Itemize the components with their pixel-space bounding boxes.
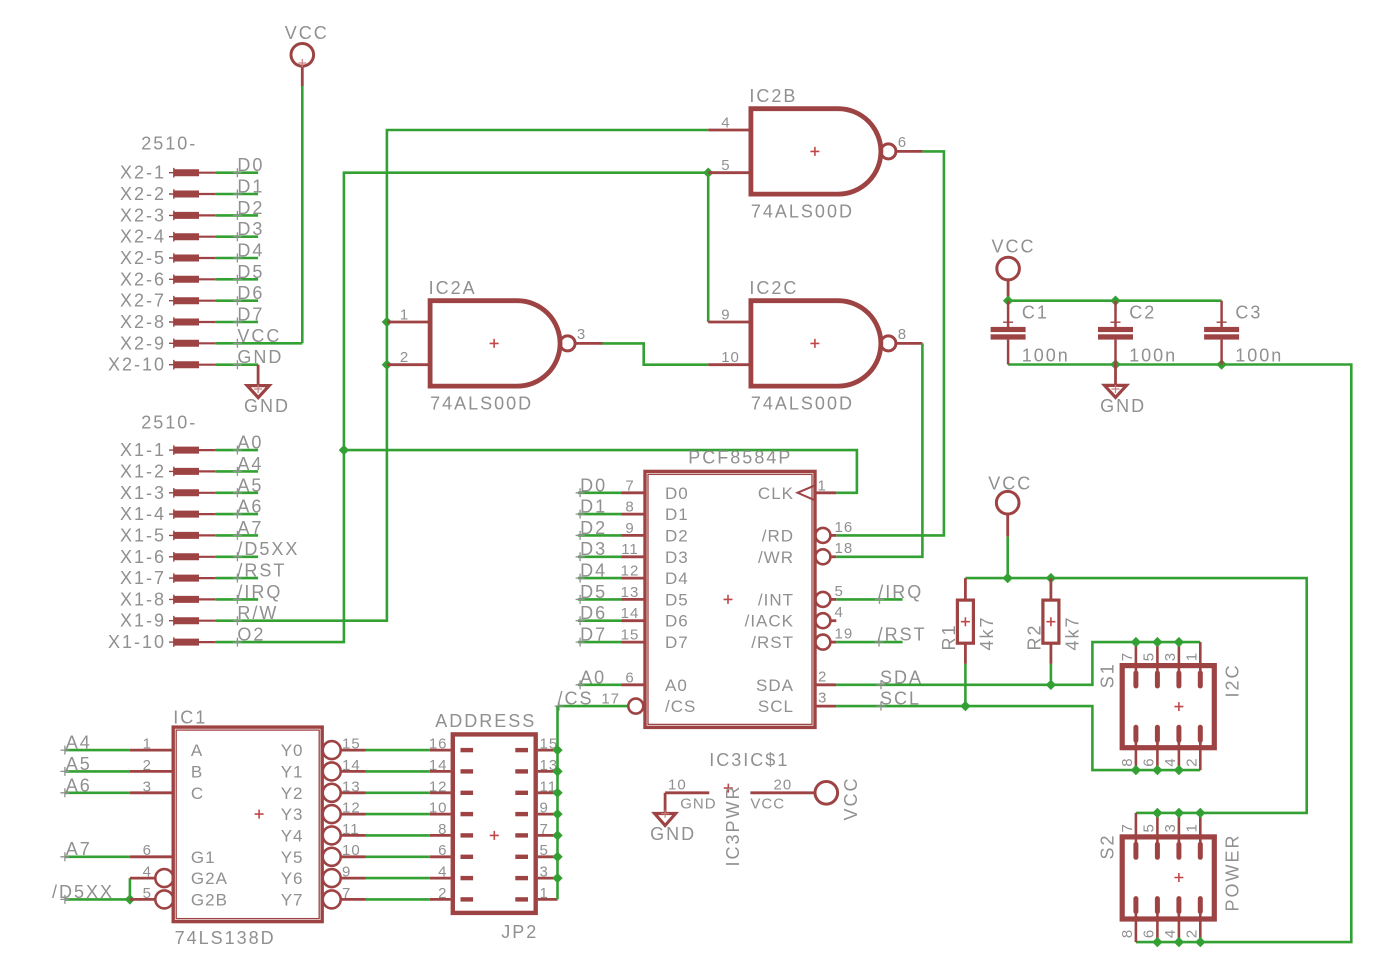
svg-text:5: 5 [721,157,730,174]
connector pin X1-10 [169,637,179,647]
svg-text:6: 6 [625,669,634,686]
pin 13 of JP2 [538,770,558,773]
connector S1 (I2C) [1122,666,1214,748]
connector pin X1-9 [169,616,179,626]
svg-text:D7: D7 [580,625,607,645]
pin 2 (B) of IC1 [130,770,173,773]
node label D6 [233,296,242,305]
wire net /CS from JP2 to PCF8584P pin 17 [558,705,629,708]
wire net from IC2C pin 8 to PCF8584P /WR [836,343,922,556]
svg-text:4: 4 [1162,757,1179,766]
pin 6 of IC2B [896,150,923,153]
svg-text:VCC: VCC [992,237,1036,257]
svg-text:JP2: JP2 [501,922,538,942]
pin 2 of S1 [1199,739,1202,770]
svg-text:G2B: G2B [191,890,228,909]
pin 3 of JP2 [538,877,558,880]
wire net Y7 from IC1 to JP2 [366,898,430,901]
svg-text:2: 2 [143,757,152,774]
svg-text:D2: D2 [665,526,689,545]
pin 5 of S2 [1156,813,1159,845]
node label A0 [233,446,242,455]
wire net O2 from IC2B pin 5 down to IC2C pin 9 [707,173,710,322]
node label D4 [233,254,242,263]
pin 7 (D0) of PCF8584P [622,491,646,494]
pin 4 (/IACK) of PCF8584P [815,613,830,628]
svg-text:6: 6 [898,134,907,151]
pin 9 (Y6) of IC1 [323,869,341,887]
pin 19 (/RST) of PCF8584P [815,635,830,650]
svg-text:15: 15 [621,627,640,644]
svg-text:4: 4 [1162,929,1179,938]
wire net SCL from R1 bottom [964,664,967,706]
wire net Y1 from IC1 to JP2 [366,770,430,773]
pin 7 of JP2 [538,834,558,837]
svg-text:X1-8: X1-8 [120,589,166,609]
junction GND at C3 [1216,359,1226,369]
svg-text:Y3: Y3 [281,805,304,824]
pin 11 (D3) of PCF8584P [622,555,646,558]
svg-text:D1: D1 [237,177,264,197]
svg-text:5: 5 [540,842,549,859]
svg-text:13: 13 [342,778,361,795]
svg-text:5: 5 [143,885,152,902]
svg-text:10: 10 [429,800,448,817]
svg-text:2: 2 [438,885,447,902]
svg-text:6: 6 [1141,757,1158,766]
wire net D3 at X2-4 [215,235,258,238]
wire net A7 to IC1 pin 6 [65,855,130,858]
svg-text:16: 16 [835,519,854,536]
node label O2 [233,638,242,647]
pin 4 of JP2 [430,877,451,880]
svg-text:D5: D5 [580,582,607,602]
svg-text:VCC: VCC [237,326,281,346]
junction at S1 top pin [1152,637,1162,647]
wire net Y6 from IC1 to JP2 [366,877,430,880]
junction at S2 bottom pin [1174,937,1184,947]
resistor R2 4k7 [1050,578,1053,600]
svg-text:GND: GND [650,824,696,844]
svg-text:/RST: /RST [878,625,927,645]
connector pin X2-9 [169,339,179,349]
svg-text:6: 6 [143,842,152,859]
svg-text:VCC: VCC [750,795,785,812]
wire net /D5XX at X1-6 [215,555,258,558]
node label A4 [233,467,242,476]
pin 2 (SDA) of PCF8584P [815,683,836,686]
wire net D2 to PCF8584P pin 9 [578,534,622,537]
svg-text:Y0: Y0 [281,741,304,760]
capacitor C3 100n [1220,301,1223,327]
svg-text:X1-3: X1-3 [120,483,166,503]
capacitor C2 100n [1114,301,1117,327]
svg-text:D6: D6 [237,283,264,303]
junction R/W at IC2A pin 1 [382,317,392,327]
pin 3 of S1 [1178,642,1181,674]
svg-text:D5: D5 [237,262,264,282]
svg-text:14: 14 [429,757,448,774]
pin 5 (/INT) of PCF8584P [815,592,830,607]
wire net D2 at X2-3 [215,214,258,217]
svg-text:/D5XX: /D5XX [52,882,114,902]
svg-text:X2-4: X2-4 [120,227,166,247]
wire net SCL from PCF8584P pin 3 to R1 and S1 bottom pins [836,706,1200,770]
pin 5 of JP2 [538,855,558,858]
connector pin X2-1 [169,168,179,178]
wire net Y5 from IC1 to JP2 [366,855,430,858]
svg-text:IC2A: IC2A [429,278,477,298]
svg-text:X2-3: X2-3 [120,205,166,225]
svg-text:8: 8 [1119,929,1136,938]
ground symbol under C2 [1114,365,1117,386]
pin 4 of S1 [1178,739,1181,770]
pin 1 of JP2 [538,898,558,901]
pin 12 (D4) of PCF8584P [622,577,646,580]
wire net A0 at X1-1 [215,449,258,452]
svg-text:D4: D4 [665,569,689,588]
pin 1 of IC2A [387,321,430,324]
connector pin X1-8 [169,595,179,605]
pin 4 of S2 [1178,911,1181,943]
svg-text:4: 4 [438,864,447,881]
wire net D1 at X2-2 [215,193,258,196]
junction O2 at IC2B pin 5 [703,168,713,178]
svg-text:D0: D0 [580,475,607,495]
svg-text:9: 9 [625,520,634,537]
svg-text:GND: GND [1100,396,1146,416]
svg-text:SCL: SCL [758,697,794,716]
svg-text:D2: D2 [237,198,264,218]
svg-text:IC2C: IC2C [749,278,798,298]
pin 8 of S2 [1135,911,1138,943]
svg-text:X2-2: X2-2 [120,184,166,204]
wire net A6 at X1-4 [215,513,258,516]
pin 2 of JP2 [430,898,451,901]
svg-text:D2: D2 [580,518,607,538]
connector pin X1-5 [169,531,179,541]
connector pin X2-3 [169,211,179,221]
svg-text:4k7: 4k7 [977,615,997,650]
wire net D3 to PCF8584P pin 11 [578,555,622,558]
pin 11 (Y4) of IC1 [323,826,341,844]
connector pin X1-7 [169,573,179,583]
node label /IRQ [875,595,884,604]
connector S2 (POWER) [1122,837,1214,919]
pin 1 (CLK) of PCF8584P [815,491,836,494]
node label /RST [875,638,884,647]
wire net /D5XX to IC1 G2A/G2B [65,898,130,901]
ground symbol at IC3 pin 10 [664,793,667,814]
svg-text:1: 1 [540,885,549,902]
svg-text:3: 3 [1162,823,1179,832]
junction at S1 top pin [1174,637,1184,647]
node label /RST [233,574,242,583]
wire net /RST from PCF8584P pin 19 [836,641,902,644]
svg-text:D3: D3 [237,219,264,239]
wire net A4 to IC1 pin 1 [65,749,130,752]
svg-text:8: 8 [898,326,907,343]
node label /D5XX [233,552,242,561]
junction /CS at JP2 pin 13 [552,766,562,776]
junction R/W at IC2A pin 2 [382,360,392,370]
svg-text:G1: G1 [191,848,216,867]
svg-text:D7: D7 [665,633,689,652]
pin 11 of JP2 [538,791,558,794]
svg-text:X1-9: X1-9 [120,611,166,631]
svg-text:X2-6: X2-6 [120,269,166,289]
svg-text:Y2: Y2 [281,784,304,803]
svg-text:100n: 100n [1022,346,1070,366]
svg-text:A0: A0 [237,433,263,453]
capacitor C1 100n [1007,301,1010,327]
svg-text:3: 3 [143,778,152,795]
node label GND [233,360,242,369]
node label SCL [877,702,886,711]
pin 12 (Y3) of IC1 [323,805,341,823]
svg-text:SDA: SDA [880,667,923,687]
svg-text:A5: A5 [237,475,263,495]
pin 9 (D2) of PCF8584P [622,534,646,537]
wire net /CS vertical joining JP2 right pins [556,706,559,899]
svg-text:B: B [191,762,203,781]
pin 10 of JP2 [430,813,451,816]
svg-text:IC1: IC1 [173,708,207,728]
svg-text:12: 12 [621,563,640,580]
svg-text:100n: 100n [1235,346,1283,366]
pin 17 (/CS) of PCF8584P [628,699,643,714]
junction /D5XX at G2B [125,894,135,904]
svg-text:/RST: /RST [751,633,794,652]
svg-text:/INT: /INT [758,590,794,609]
pin 6 (G1) of IC1 [130,855,173,858]
svg-text:R1: R1 [939,623,959,650]
pin 15 (D7) of PCF8584P [622,641,646,644]
pin 8 of JP2 [430,834,451,837]
wire net A6 to IC1 pin 3 [65,791,130,794]
junction /CS at JP2 pin 7 [552,830,562,840]
wire net Y3 from IC1 to JP2 [366,813,430,816]
wire net VCC vertical from symbol down to X2-9 [301,86,304,343]
svg-text:A: A [191,741,203,760]
junction O2 branch [339,445,349,455]
wire net from IC2B pin 6 to PCF8584P /RD [836,151,944,535]
wire net SDA from R2 bottom [1050,664,1053,685]
svg-text:S2: S2 [1098,833,1118,859]
junction at S2 top pin [1152,808,1162,818]
svg-text:1: 1 [1184,823,1201,832]
node label D2 [233,211,242,220]
svg-text:19: 19 [835,626,854,643]
op-amp gate IC2C 74ALS00D NAND [751,301,881,386]
node label SDA [877,680,886,689]
svg-text:/CS: /CS [558,689,594,709]
svg-text:X1-6: X1-6 [120,547,166,567]
svg-text:2510-: 2510- [141,413,197,433]
svg-text:13: 13 [621,584,640,601]
junction at S1 bottom pin [1174,765,1184,775]
svg-text:R/W: R/W [237,603,278,623]
pin 5 (G2B) of IC1 [130,898,155,901]
svg-text:D1: D1 [580,497,607,517]
pin 10 of IC2C [708,363,751,366]
svg-text:14: 14 [621,605,640,622]
wire net VCC from X2-9 [215,342,302,345]
svg-text:7: 7 [540,821,549,838]
wire net D4 at X2-5 [215,257,258,260]
svg-text:X1-7: X1-7 [120,568,166,588]
node label A6 [233,510,242,519]
svg-text:CLK: CLK [758,484,794,503]
svg-text:1: 1 [143,736,152,753]
svg-text:4k7: 4k7 [1063,615,1083,650]
wire net GND rail under capacitors to S2 [1008,365,1351,943]
svg-text:POWER: POWER [1222,833,1242,911]
pin 7 (Y7) of IC1 [323,890,341,908]
pin 5 of S1 [1156,642,1159,674]
svg-text:3: 3 [577,326,586,343]
svg-text:SDA: SDA [756,676,794,695]
pin 1 (A) of IC1 [130,749,173,752]
IC PCF8584P (IC3) [645,471,815,727]
connector pin X2-6 [169,275,179,285]
svg-text:12: 12 [429,778,448,795]
pin 10 (Y5) of IC1 [323,848,341,866]
junction /CS at JP2 pin 9 [552,809,562,819]
svg-text:/RST: /RST [237,561,286,581]
svg-text:D6: D6 [665,612,689,631]
svg-text:A7: A7 [66,839,92,859]
pin 6 of S2 [1156,911,1159,943]
wire net D0 at X2-1 [215,171,258,174]
svg-text:6: 6 [438,842,447,859]
connector pin X2-10 [169,360,179,370]
pin 3 of IC2A [575,342,602,345]
svg-text:D3: D3 [665,548,689,567]
svg-text:11: 11 [342,821,360,838]
svg-text:11: 11 [621,541,639,558]
node label D3 [233,232,242,241]
node label VCC [233,339,242,348]
pin 8 of S1 [1135,739,1138,770]
svg-text:/IRQ: /IRQ [237,582,282,602]
svg-text:X2-10: X2-10 [108,355,166,375]
svg-text:1: 1 [1184,652,1201,661]
svg-text:5: 5 [1141,652,1158,661]
pin 1 of S1 [1199,642,1202,674]
op-amp gate IC2B 74ALS00D NAND [751,109,881,194]
ground symbol at X2-10 [257,365,260,386]
svg-text:7: 7 [1119,823,1136,832]
connector pin X2-2 [169,189,179,199]
connector pin X1-3 [169,488,179,498]
svg-text:1: 1 [400,307,409,324]
svg-text:X2-7: X2-7 [120,291,166,311]
svg-text:17: 17 [601,691,620,708]
junction /CS at JP2 pin 5 [552,852,562,863]
wire net A0 to PCF8584P pin 6 [578,683,622,686]
svg-text:8: 8 [438,821,447,838]
connector pin X2-5 [169,253,179,263]
pin 13 (D5) of PCF8584P [622,598,646,601]
svg-text:12: 12 [342,800,361,817]
svg-text:C3: C3 [1235,303,1262,323]
svg-text:D6: D6 [580,603,607,623]
svg-text:4: 4 [835,604,844,621]
junction /CS at JP2 pin 11 [552,788,562,798]
junction at S2 top pin [1195,808,1205,818]
svg-text:A0: A0 [665,676,688,695]
pin 10 (GND) of IC3 [665,791,709,794]
svg-text:9: 9 [342,864,351,881]
svg-text:VCC: VCC [285,23,329,43]
pin 2 of S2 [1199,911,1202,943]
node label A7 [233,531,242,540]
svg-text:74ALS00D: 74ALS00D [430,394,533,414]
svg-text:R2: R2 [1024,623,1044,650]
pin 14 (Y1) of IC1 [323,762,341,780]
pin 7 of S1 [1135,642,1138,674]
svg-text:A4: A4 [66,733,92,753]
node label D0 [233,168,242,177]
svg-text:IC3PWR: IC3PWR [723,784,743,866]
svg-text:VCC: VCC [841,776,861,820]
svg-text:D4: D4 [580,561,607,581]
svg-text:GND: GND [680,795,716,812]
wire net VCC stub down from symbol [1006,537,1009,578]
svg-text:ADDRESS: ADDRESS [435,711,536,731]
junction /CS at JP2 pin 15 [552,745,562,755]
svg-text:2510-: 2510- [141,134,197,154]
svg-text:2: 2 [818,668,827,685]
wire net D1 to PCF8584P pin 8 [578,513,622,516]
svg-text:D3: D3 [580,539,607,559]
svg-text:IC3IC$1: IC3IC$1 [709,750,789,770]
pin 1 of S2 [1199,813,1202,845]
svg-text:C: C [191,784,204,803]
svg-text:74ALS00D: 74ALS00D [751,202,854,222]
svg-text:4: 4 [721,115,730,132]
svg-text:A5: A5 [66,754,92,774]
svg-text:Y7: Y7 [281,890,304,909]
junction SDA at R2 [1046,680,1056,690]
svg-text:/RD: /RD [762,526,794,545]
svg-text:G2A: G2A [191,869,228,888]
svg-text:2: 2 [400,349,409,366]
svg-text:100n: 100n [1129,346,1177,366]
wire net D0 to PCF8584P pin 7 [578,491,622,494]
wire net D5 at X2-6 [215,278,258,281]
wire net Y4 from IC1 to JP2 [366,834,430,837]
svg-text:10: 10 [668,777,687,794]
svg-text:X2-1: X2-1 [120,163,166,183]
pin 14 (D6) of PCF8584P [622,619,646,622]
svg-text:Y6: Y6 [281,869,304,888]
svg-text:7: 7 [1119,652,1136,661]
wire net D6 at X2-7 [215,299,258,302]
svg-text:74ALS00D: 74ALS00D [751,394,854,414]
svg-text:3: 3 [1162,652,1179,661]
svg-text:GND: GND [237,347,283,367]
svg-text:O2: O2 [237,625,265,645]
svg-text:Y5: Y5 [281,848,304,867]
svg-text:8: 8 [1119,757,1136,766]
pin 14 of JP2 [430,770,451,773]
wire net A7 at X1-5 [215,534,258,537]
connector pin X2-4 [169,232,179,242]
connector pin X1-6 [169,552,179,562]
pin 4 of IC2B [708,129,751,132]
